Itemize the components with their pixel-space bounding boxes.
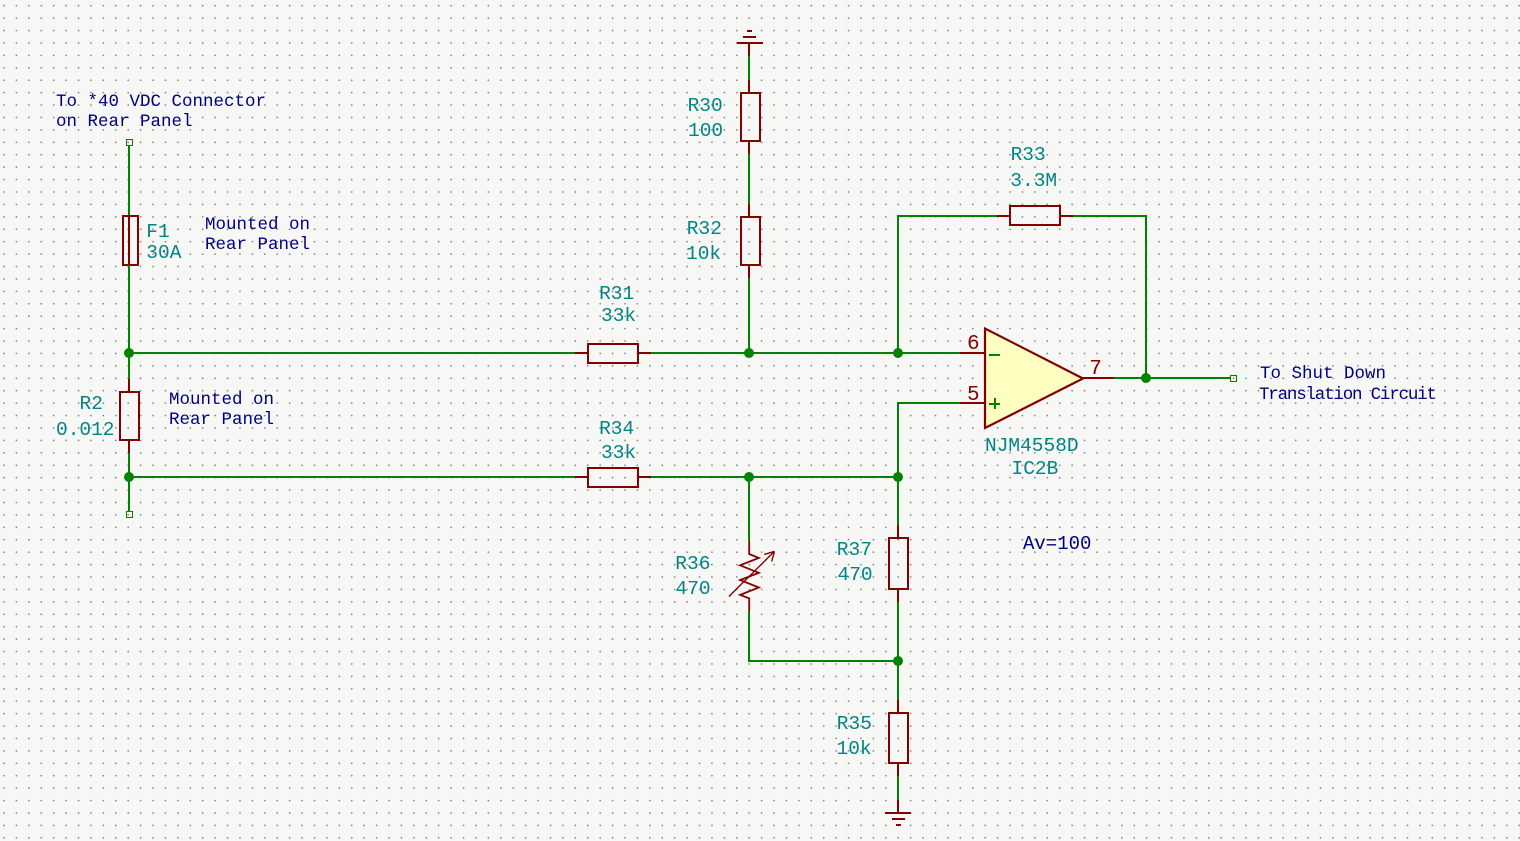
op-amp ref IC2B [1012,459,1059,479]
op-amp minus mark [989,354,1000,356]
resistor R33 [997,215,1009,217]
text note: Mounted on Rear Panel (R2) [169,390,274,430]
lower rail wire: R34 to node F [651,476,899,478]
bottom rail wire [748,660,899,662]
wire: R36 to bottom rail [748,611,750,662]
wire: node A to R2 [128,353,130,379]
wire: R37 to node G [897,602,899,661]
text note: Mounted on Rear Panel (fuse) [205,215,310,255]
fuse F1 [128,145,130,217]
resistor R37 [897,525,899,537]
wire: node F down to R37 [897,477,899,525]
resistor R34 [575,476,587,478]
op-amp U IC2B [980,323,1090,435]
wire: gnd to R30 [748,56,750,80]
ground top (inverted) [747,30,752,32]
wire: R30 to R32 [748,154,750,204]
node D junction (898,353) [893,348,903,358]
ground bottom [897,800,899,812]
wire: R2 to node B [128,453,130,477]
feedback wire: node D up [897,216,899,353]
lower rail wire: node B to R34 [129,476,575,478]
pin 5 [960,402,985,404]
wire: fuse to node A [128,265,130,353]
resistor R30 [748,80,750,92]
node A junction (129,353) [124,348,134,358]
pin 7 [1082,377,1114,379]
wire: node G to R35 [897,661,899,700]
node B junction (129,477) [124,472,134,482]
wire: R32 to node C [748,278,750,353]
upper rail wire: node A to R31 [129,352,575,354]
text note: Av=100 [1023,534,1091,554]
connector square top-left [126,139,133,146]
op-amp plus mark [989,403,1000,405]
connector square bottom-left [126,511,133,518]
resistor R35 [897,700,899,712]
variable resistor R36 [715,530,790,620]
wire: to pin 5 [897,402,960,404]
pin 6 [960,352,985,354]
resistor R2 [128,379,130,391]
wire: R35 to ground [897,776,899,800]
node C junction (749,353) [744,348,754,358]
node E junction (749,477) [744,472,754,482]
text note: To *40 VDC Connector on Rear Panel [56,92,266,132]
output connector square [1230,375,1237,382]
op-amp value NJM4558D [985,436,1079,456]
feedback wire: to R33 [897,215,997,217]
node H junction (1146,378.5) [1141,373,1151,383]
feedback wire: down to output [1145,216,1147,379]
output wire [1114,377,1231,379]
resistor R31 [575,352,587,354]
feedback wire: R33 to corner [1073,215,1147,217]
node F junction (898,477) [893,472,903,482]
node G junction (898,661) [893,656,903,666]
resistor R32 [748,204,750,216]
wire: node E down to R36 [748,477,750,541]
upper rail wire: R31 to pin 6 [651,352,961,354]
text note: To Shut Down Translation Circuit [1260,364,1386,384]
wire: node F up to pin5 level [897,402,899,477]
wire: node B to bottom square [128,477,130,512]
